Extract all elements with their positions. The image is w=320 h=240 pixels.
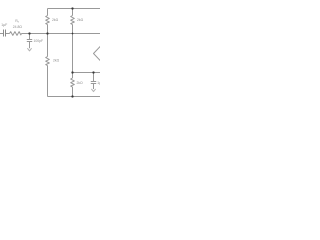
resistor Rs 24.8ohm xyxy=(10,32,22,36)
svg-text:1μ: 1μ xyxy=(97,81,100,85)
capacitor C3 (right shunt) xyxy=(91,81,96,83)
node dot bottom rail x=72 xyxy=(71,95,73,97)
wire mid line down to C3 xyxy=(93,73,95,82)
resistor R4 2k (lower right) xyxy=(71,78,75,87)
node dot main line x=47 xyxy=(46,32,48,34)
wire C2 to ground xyxy=(29,42,31,49)
svg-text:100pF: 100pF xyxy=(34,39,44,43)
node dot mid line x=72 xyxy=(71,71,73,73)
resistor R2 2k (lower left) xyxy=(46,57,50,66)
capacitor C1 1uF (series input) xyxy=(4,30,6,37)
node dot main line x=29 xyxy=(28,32,30,34)
ground (left) xyxy=(27,48,31,51)
wire input left xyxy=(0,33,3,35)
node dot main line x=72 xyxy=(72,33,74,35)
svg-text:2kΩ: 2kΩ xyxy=(53,59,60,63)
wire R3 through node to mid junction xyxy=(72,25,74,73)
wire junction to R4 xyxy=(72,73,74,79)
wire R2 down to bottom rail xyxy=(47,66,49,97)
svg-text:Rs: Rs xyxy=(15,19,19,24)
ground (right) xyxy=(91,89,95,92)
svg-text:24.8Ω: 24.8Ω xyxy=(13,25,23,29)
node dot mid line x=93 xyxy=(92,71,94,73)
resistor R1 2k (upper left) xyxy=(46,16,50,25)
dependent source U1 (diamond, clipped at right edge) xyxy=(94,46,108,60)
capacitor C2 100pF (shunt) xyxy=(27,39,32,41)
svg-text:1μF: 1μF xyxy=(1,23,7,27)
wire main node line xyxy=(22,33,101,35)
wire mid horizontal line xyxy=(73,72,101,74)
wire top rail drop at x=72 xyxy=(72,9,74,16)
svg-text:2kΩ: 2kΩ xyxy=(77,18,84,22)
node dot top rail x=72 xyxy=(71,7,73,9)
svg-text:2kΩ: 2kΩ xyxy=(52,18,59,22)
resistor R3 2k (upper right) xyxy=(71,16,75,25)
wire cap to Rs xyxy=(6,33,10,35)
wire node to R2 xyxy=(47,34,49,57)
wire R1 to node xyxy=(47,25,49,34)
wire top-left vertical xyxy=(47,9,49,16)
svg-text:2kΩ: 2kΩ xyxy=(77,81,84,85)
wire node down to C2 xyxy=(29,34,31,40)
wire R4 to bottom rail xyxy=(72,87,74,97)
wire C3 to ground xyxy=(93,84,95,90)
wire bottom rail xyxy=(48,96,101,98)
wire top rail xyxy=(48,8,101,10)
